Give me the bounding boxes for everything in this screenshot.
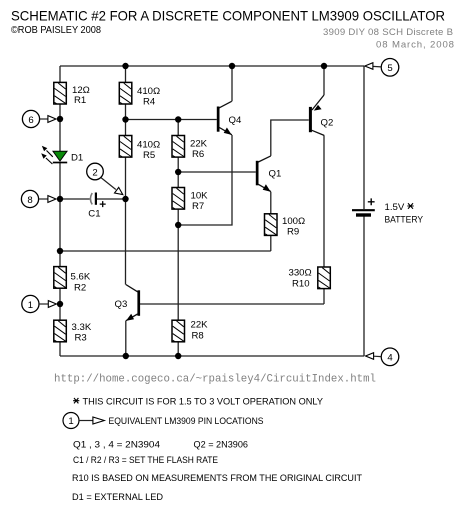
junction: Q3 emitter / bottom rail bbox=[123, 353, 129, 359]
wire: Q4 base from R4/R5 junction bbox=[126, 119, 217, 121]
junction: R4/R5/Q4 base bbox=[122, 116, 128, 122]
wire: Q1 emitter to R9 bbox=[270, 192, 272, 214]
svg-text:22K: 22K bbox=[191, 320, 209, 331]
svg-text:R3: R3 bbox=[75, 333, 87, 344]
note: voltage range bbox=[73, 397, 323, 408]
pin 5 tap bbox=[365, 59, 399, 77]
svg-text:R9: R9 bbox=[287, 227, 299, 238]
wire: LED rail to R9 bottom bbox=[60, 250, 271, 252]
resistor R3 bbox=[54, 320, 92, 343]
svg-text:EQUIVALENT LM3909 PIN LOCATION: EQUIVALENT LM3909 PIN LOCATIONS bbox=[109, 416, 264, 427]
wire: Q2 collector to R10 bbox=[323, 135, 325, 267]
pin 6 tap bbox=[22, 110, 56, 127]
svg-text:R6: R6 bbox=[192, 149, 204, 160]
svg-text:R5: R5 bbox=[143, 150, 155, 161]
wire: top rail to R4 bbox=[125, 66, 127, 82]
wire: R7 to node y225 bbox=[177, 209, 179, 225]
wire: Q3 base to R10 bottom bbox=[140, 303, 324, 305]
svg-text:R4: R4 bbox=[143, 97, 156, 108]
wire: R9 bottom to y251 rail bbox=[270, 235, 272, 251]
note: transistor types bbox=[73, 440, 248, 451]
resistor R4 bbox=[119, 82, 160, 107]
note: D1 external bbox=[72, 492, 163, 503]
resistor R6 bbox=[172, 136, 208, 161]
svg-text:330Ω: 330Ω bbox=[289, 268, 312, 279]
wire: node8 to C1 left plate bbox=[60, 198, 90, 200]
resistor R1 bbox=[54, 82, 90, 106]
svg-text:10K: 10K bbox=[191, 191, 209, 202]
svg-text:8: 8 bbox=[27, 195, 32, 206]
svg-text:6: 6 bbox=[28, 115, 33, 126]
wire: top rail to Q4 collector bbox=[231, 66, 233, 101]
svg-text:C1: C1 bbox=[88, 209, 100, 220]
svg-text:5.6K: 5.6K bbox=[71, 272, 91, 283]
pin 8 tap bbox=[21, 190, 56, 207]
note: R10 origin bbox=[72, 473, 362, 484]
title bbox=[11, 8, 445, 24]
wire: Q3 emitter down to bottom rail bbox=[125, 321, 127, 357]
transistor Q2 (PNP 2N3906) bbox=[309, 95, 333, 135]
svg-text:1.5V: 1.5V bbox=[385, 202, 405, 213]
junction: R6/R7/Q1 base bbox=[175, 169, 181, 175]
date label bbox=[376, 40, 454, 51]
transistor Q1 (NPN 2N3904) bbox=[256, 156, 282, 192]
svg-text:Q3: Q3 bbox=[115, 299, 128, 310]
copyright bbox=[11, 25, 101, 36]
svg-text:Q1 , 3 , 4 = 2N3904: Q1 , 3 , 4 = 2N3904 bbox=[73, 440, 161, 451]
legend: pin location symbol bbox=[63, 413, 264, 429]
wire: bottom rail bbox=[60, 355, 364, 357]
LED D1 bbox=[41, 146, 83, 164]
resistor R2 bbox=[54, 267, 91, 294]
svg-text:Q4: Q4 bbox=[229, 115, 242, 126]
wire: V+ top rail bbox=[60, 65, 364, 67]
wire: R2 to R3 (node pin1) bbox=[59, 288, 61, 320]
wire: left rail top (V+ to R1) bbox=[59, 66, 61, 82]
junction: top rail / Q2 emitter bbox=[321, 63, 327, 69]
svg-text:Q2 = 2N3906: Q2 = 2N3906 bbox=[194, 440, 249, 451]
wire: V+ rail to battery + bbox=[363, 66, 365, 209]
svg-text:5: 5 bbox=[387, 63, 392, 74]
junction: C1 / node pin 2 bbox=[122, 196, 128, 202]
wire: LED cathode down to node pin8 and node at y251 bbox=[59, 163, 61, 267]
junction: top rail / R4 bbox=[122, 63, 128, 69]
wire: battery - to bottom rail bbox=[363, 216, 365, 356]
svg-text:3.3K: 3.3K bbox=[72, 322, 92, 333]
wire: top rail to Q2 emitter bbox=[323, 66, 325, 95]
wire: R5 down through C1 node to Q3 collector bend bbox=[125, 157, 127, 284]
wire: R3 to bottom rail bbox=[59, 342, 61, 356]
junction: R6 top / Q4 base bbox=[175, 116, 181, 122]
junction: R8 / bottom rail bbox=[175, 353, 181, 359]
svg-text:410Ω: 410Ω bbox=[137, 86, 160, 97]
wire: R1 to LED anode (node pin6) bbox=[59, 104, 61, 151]
svg-text:100Ω: 100Ω bbox=[282, 216, 305, 227]
junction: node pin 8 bbox=[57, 196, 63, 202]
transistor Q4 (NPN 2N3904) bbox=[217, 101, 242, 135]
wire: R8 to bottom rail bbox=[177, 342, 179, 356]
resistor R10 bbox=[289, 267, 331, 290]
svg-text:http://home.cogeco.ca/~rpaisle: http://home.cogeco.ca/~rpaisley4/Circuit… bbox=[54, 374, 376, 386]
svg-text:R10: R10 bbox=[292, 279, 310, 290]
svg-text:THIS CIRCUIT IS FOR 1.5 TO 3 V: THIS CIRCUIT IS FOR 1.5 TO 3 VOLT OPERAT… bbox=[83, 397, 324, 408]
svg-text:R10 IS BASED ON MEASUREMENTS F: R10 IS BASED ON MEASUREMENTS FROM THE OR… bbox=[72, 473, 362, 484]
junction: LED rail / R9 wire bbox=[57, 248, 63, 254]
junction: node pin 6 bbox=[57, 116, 63, 122]
svg-text:C1 / R2 / R3 = SET THE FLASH R: C1 / R2 / R3 = SET THE FLASH RATE bbox=[73, 455, 218, 466]
wire: R6 top to base wire junction bbox=[177, 120, 179, 136]
svg-text:4: 4 bbox=[387, 353, 393, 364]
transistor Q3 (NPN 2N3904, mirrored) bbox=[115, 285, 141, 321]
svg-text:SCHEMATIC #2 FOR A DISCRETE CO: SCHEMATIC #2 FOR A DISCRETE COMPONENT LM… bbox=[11, 8, 445, 24]
svg-text:R7: R7 bbox=[192, 201, 204, 212]
pin 4 tap bbox=[366, 348, 399, 366]
capacitor C1 bbox=[88, 193, 105, 220]
junction: R7 / Q4 emitter / R8 bbox=[175, 222, 181, 228]
svg-text:410Ω: 410Ω bbox=[137, 140, 160, 151]
junction: node pin 1 bbox=[57, 301, 63, 307]
svg-text:1: 1 bbox=[68, 416, 73, 427]
svg-text:Q2: Q2 bbox=[321, 118, 334, 129]
note: flash rate bbox=[73, 455, 218, 466]
wire: Q4 emitter node to R7 node bbox=[178, 135, 232, 225]
resistor R7 bbox=[172, 188, 208, 213]
wire: R10 bottom to Q3 base wire bbox=[323, 289, 325, 304]
wire: Q2 base link from Q1 collector bbox=[271, 120, 309, 156]
wire: R6 to Q1 base junction bbox=[177, 157, 179, 187]
resistor R9 bbox=[265, 214, 306, 238]
wire: Q1 base from R6/R7 junction bbox=[178, 171, 256, 173]
battery BT1 1.5V bbox=[352, 198, 424, 225]
pin 1 tap bbox=[22, 295, 57, 312]
pin 2 tap bbox=[87, 163, 123, 194]
svg-text:D1 = EXTERNAL LED: D1 = EXTERNAL LED bbox=[72, 492, 163, 503]
junction: top rail / Q4 collector bbox=[229, 63, 235, 69]
wire: node y225 down to R8 bbox=[177, 225, 179, 320]
svg-text:22K: 22K bbox=[190, 139, 208, 150]
svg-text:R2: R2 bbox=[74, 283, 86, 294]
svg-text:08 March, 2008: 08 March, 2008 bbox=[376, 40, 454, 51]
wire: C1 right plate to node 2 bbox=[97, 198, 126, 200]
svg-text:R1: R1 bbox=[74, 95, 86, 106]
resistor R5 bbox=[119, 136, 160, 162]
svg-text:R8: R8 bbox=[192, 331, 204, 342]
wire: R4 to R5 junction bbox=[125, 104, 127, 136]
svg-text:D1: D1 bbox=[71, 153, 83, 164]
svg-text:1: 1 bbox=[28, 300, 33, 311]
svg-text:BATTERY: BATTERY bbox=[385, 215, 424, 226]
resistor R8 bbox=[172, 320, 208, 342]
svg-text:©ROB PAISLEY 2008: ©ROB PAISLEY 2008 bbox=[11, 25, 101, 36]
url caption bbox=[54, 374, 376, 386]
svg-text:3909 DIY 08 SCH Discrete B: 3909 DIY 08 SCH Discrete B bbox=[323, 27, 453, 38]
doc ref label bbox=[323, 27, 453, 38]
svg-text:Q1: Q1 bbox=[269, 169, 282, 180]
svg-text:2: 2 bbox=[92, 167, 97, 178]
